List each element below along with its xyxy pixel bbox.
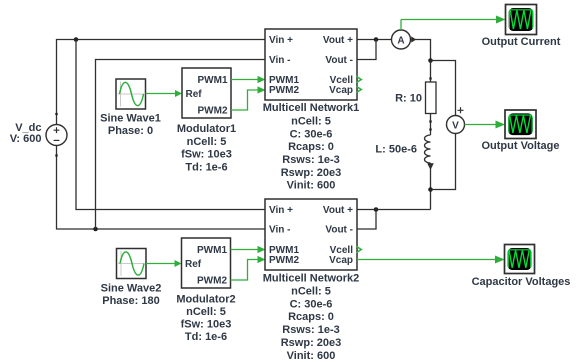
svg-text:PWM2: PWM2 [269, 255, 299, 266]
svg-text:Vout -: Vout - [325, 225, 353, 236]
svg-text:A: A [397, 36, 404, 47]
svg-text:Modulator2: Modulator2 [176, 294, 235, 306]
terminal tick resistor top [429, 77, 431, 79]
inductor L: 50e-6 [425, 135, 434, 170]
port Vcell output chevron Network2 [356, 246, 361, 252]
sine source Sine Wave1 [116, 79, 146, 109]
svg-text:Output Voltage: Output Voltage [481, 140, 559, 152]
svg-text:Vout +: Vout + [323, 205, 353, 216]
svg-text:Rsws: 1e-3: Rsws: 1e-3 [282, 324, 339, 336]
svg-text:Multicell Network2: Multicell Network2 [263, 273, 360, 285]
wire Sine Wave2 to Modulator2 Ref [146, 260, 182, 267]
svg-text:V: V [452, 121, 459, 132]
svg-text:PWM1: PWM1 [197, 245, 227, 256]
wire bottom rail to Network2 Vout+ [357, 209, 431, 211]
node junction load bottom [428, 187, 433, 192]
svg-text:Sine Wave2: Sine Wave2 [101, 283, 162, 295]
wire Modulator2 PWM1 to Network2 PWM1 [231, 246, 266, 253]
voltage source V_dc [46, 125, 67, 146]
block Modulator1 [182, 68, 231, 118]
svg-text:C: 30e-6: C: 30e-6 [290, 299, 333, 311]
svg-text:PWM1: PWM1 [198, 75, 228, 86]
scope Output Voltage [505, 110, 536, 139]
port Vcell output chevron Network1 [356, 76, 361, 82]
svg-text:Ref: Ref [186, 89, 203, 100]
svg-text:Rcaps: 0: Rcaps: 0 [288, 141, 334, 153]
wire voltmeter to Output Voltage scope [465, 121, 506, 129]
svg-text:Phase: 180: Phase: 180 [102, 295, 159, 307]
svg-text:Rswp: 20e3: Rswp: 20e3 [281, 167, 342, 179]
node junction load top [428, 58, 433, 63]
wire Sine Wave1 to Modulator1 Ref [146, 90, 183, 97]
wire Network1 Vout+ to ammeter [357, 39, 392, 41]
svg-text:PWM2: PWM2 [197, 276, 227, 287]
svg-text:fSw: 10e3: fSw: 10e3 [181, 319, 232, 331]
port Vcap output chevron Network1 [356, 86, 361, 92]
svg-text:Vinit: 600: Vinit: 600 [287, 350, 336, 362]
node junction Vout2 [374, 207, 379, 212]
wire Network2 Vcap to Capacitor Voltages scope [357, 256, 505, 264]
svg-text:Phase: 0: Phase: 0 [108, 125, 153, 137]
svg-text:PWM2: PWM2 [198, 106, 228, 117]
terminal tick V_dc bottom [55, 154, 57, 156]
svg-text:C: 30e-6: C: 30e-6 [290, 129, 333, 141]
wire junction up to Network1 Vin- [96, 60, 266, 230]
node junction top [74, 37, 79, 42]
terminal tick V_dc top [55, 113, 57, 115]
block Modulator2 [182, 238, 231, 288]
svg-text:Vout +: Vout + [323, 35, 353, 46]
svg-text:V: 600: V: 600 [10, 133, 42, 145]
svg-text:Multicell Network1: Multicell Network1 [263, 102, 360, 114]
svg-text:Vcap: Vcap [329, 255, 353, 266]
svg-text:Rcaps: 0: Rcaps: 0 [288, 311, 334, 323]
scope Output Current [506, 5, 537, 35]
wire voltmeter top branch [431, 61, 456, 116]
svg-text:Td: 1e-6: Td: 1e-6 [185, 331, 227, 343]
svg-text:Modulator1: Modulator1 [177, 123, 236, 135]
wire ammeter output down to load [411, 40, 431, 61]
svg-text:Vin +: Vin + [269, 205, 293, 216]
wire voltmeter bottom branch [431, 134, 456, 190]
terminal tick resistor bottom [429, 120, 431, 122]
svg-text:Vin -: Vin - [269, 55, 290, 66]
svg-text:Vout -: Vout - [325, 55, 353, 66]
wire resistor to inductor [430, 114, 432, 136]
node junction bottom [93, 227, 98, 232]
terminal tick inductor top [429, 128, 431, 130]
wire V_dc+ to Network1 Vin+ [57, 40, 266, 125]
wire ammeter to Output Current scope [401, 16, 506, 24]
node junction Vout1 [374, 37, 379, 42]
svg-text:Vcap: Vcap [329, 85, 353, 96]
wire Modulator1 PWM2 to Network1 PWM2 [231, 86, 266, 110]
scope Capacitor Voltages [505, 245, 535, 274]
svg-text:Vin +: Vin + [269, 35, 293, 46]
svg-text:Output Current: Output Current [482, 36, 561, 48]
wire Modulator1 PWM1 to Network1 PWM1 [231, 76, 266, 83]
svg-text:Capacitor Voltages: Capacitor Voltages [472, 276, 571, 288]
resistor R: 10 [426, 82, 437, 114]
wire junction to resistor [430, 61, 432, 83]
wire Network2 Vout- riser [357, 210, 376, 230]
svg-text:Vin -: Vin - [269, 225, 290, 236]
svg-text:nCell: 5: nCell: 5 [186, 306, 226, 318]
wire inductor to bottom rail [430, 163, 432, 210]
svg-text:Rswp: 20e3: Rswp: 20e3 [281, 337, 342, 349]
svg-text:L: 50e-6: L: 50e-6 [375, 144, 417, 156]
svg-text:PWM2: PWM2 [269, 85, 299, 96]
block Multicell Network1 [265, 29, 357, 100]
wire ammeter measurement stub [400, 20, 402, 31]
svg-text:Td: 1e-6: Td: 1e-6 [185, 162, 227, 174]
svg-text:Rsws: 1e-3: Rsws: 1e-3 [282, 154, 339, 166]
wire Modulator2 PWM2 to Network2 PWM2 [231, 256, 266, 280]
svg-text:nCell: 5: nCell: 5 [187, 136, 227, 148]
ammeter A1 [392, 30, 417, 49]
svg-text:Sine Wave1: Sine Wave1 [100, 113, 161, 125]
wire V_dc- to Network2 Vin- [57, 146, 266, 230]
svg-text:R: 10: R: 10 [395, 93, 422, 105]
svg-text:fSw: 10e3: fSw: 10e3 [181, 149, 232, 161]
svg-text:Vinit: 600: Vinit: 600 [287, 180, 336, 192]
sine source Sine Wave2 [117, 249, 147, 279]
voltmeter V1 [447, 107, 465, 133]
wire Network1 Vout- riser [357, 40, 376, 60]
svg-text:nCell: 5: nCell: 5 [291, 286, 331, 298]
block Multicell Network2 [265, 199, 357, 270]
svg-text:Ref: Ref [185, 259, 202, 270]
wire junction down to Network2 Vin+ [76, 40, 265, 210]
svg-text:nCell: 5: nCell: 5 [291, 116, 331, 128]
